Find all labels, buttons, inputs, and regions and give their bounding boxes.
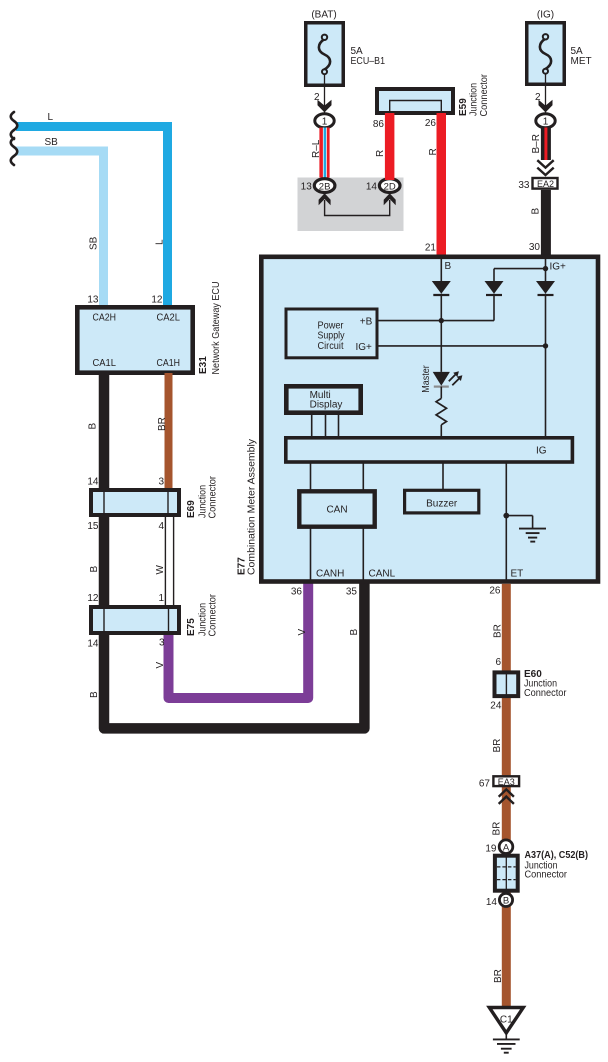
svg-text:SB: SB [45,137,59,148]
svg-text:30: 30 [529,242,541,253]
svg-text:Junction: Junction [469,83,480,116]
svg-text:MET: MET [571,56,592,67]
svg-text:+B: +B [360,316,373,327]
svg-text:86: 86 [373,119,385,130]
svg-text:1: 1 [158,593,164,604]
svg-text:B: B [503,896,509,907]
svg-text:33: 33 [518,180,530,191]
svg-text:V: V [297,629,308,636]
svg-text:V: V [155,662,166,669]
svg-text:ECU–B1: ECU–B1 [351,56,386,67]
svg-text:CANH: CANH [316,568,344,579]
svg-text:6: 6 [495,657,501,668]
svg-text:(IG): (IG) [537,10,554,21]
svg-text:24: 24 [490,701,502,712]
svg-text:14: 14 [87,639,99,650]
svg-text:Connector: Connector [525,870,568,881]
svg-text:Connector: Connector [208,475,219,518]
svg-text:1: 1 [322,116,328,127]
svg-text:B: B [89,691,100,698]
svg-text:Connector: Connector [479,73,490,116]
svg-text:36: 36 [291,587,303,598]
svg-text:B–R: B–R [531,134,542,153]
svg-text:12: 12 [151,295,163,306]
svg-text:2B: 2B [319,181,331,192]
svg-text:EA3: EA3 [498,777,515,787]
svg-text:67: 67 [479,778,491,789]
svg-text:3: 3 [158,477,164,488]
svg-text:13: 13 [87,295,99,306]
svg-text:CANL: CANL [369,568,396,579]
svg-text:Connector: Connector [524,688,567,699]
svg-text:12: 12 [87,593,99,604]
svg-text:IG: IG [536,445,547,456]
svg-text:14: 14 [486,897,498,908]
svg-text:B: B [531,208,542,215]
svg-text:Connector: Connector [208,593,219,636]
svg-text:SB: SB [89,236,100,250]
svg-text:ET: ET [511,568,524,579]
svg-text:Master: Master [421,365,432,393]
svg-text:BR: BR [493,969,504,983]
svg-text:CA1H: CA1H [157,358,181,369]
svg-text:2D: 2D [384,181,396,192]
svg-text:CAN: CAN [326,505,347,516]
svg-text:1: 1 [543,116,549,127]
svg-text:14: 14 [87,477,99,488]
svg-text:CA2H: CA2H [93,312,117,323]
svg-text:L: L [155,239,166,245]
svg-text:B: B [89,566,100,573]
svg-text:E31: E31 [198,356,209,374]
svg-text:21: 21 [425,243,437,254]
svg-text:19: 19 [485,844,497,855]
svg-text:3: 3 [159,638,165,649]
svg-text:(BAT): (BAT) [311,10,336,21]
svg-text:B: B [445,261,452,272]
svg-text:IG+: IG+ [550,261,567,272]
svg-text:CA2L: CA2L [157,312,181,323]
svg-text:4: 4 [158,521,164,532]
svg-text:BR: BR [493,624,504,638]
svg-text:26: 26 [425,118,437,129]
svg-text:IG+: IG+ [356,342,373,353]
svg-text:B: B [88,423,99,430]
svg-text:Combination Meter Assembly: Combination Meter Assembly [247,439,258,575]
svg-text:BR: BR [492,739,503,753]
svg-text:BR: BR [491,822,502,836]
svg-text:Circuit: Circuit [318,341,344,352]
svg-text:EA2: EA2 [537,179,554,189]
svg-text:A37(A), C52(B): A37(A), C52(B) [525,850,589,861]
svg-text:15: 15 [87,521,99,532]
svg-text:Display: Display [310,400,343,411]
svg-text:W: W [155,565,166,575]
svg-text:Supply: Supply [318,330,345,341]
svg-text:E59: E59 [458,98,469,116]
svg-text:Buzzer: Buzzer [426,498,458,509]
svg-text:13: 13 [301,181,313,192]
svg-text:E75: E75 [186,618,197,636]
svg-text:Network Gateway ECU: Network Gateway ECU [211,282,222,375]
svg-text:C1: C1 [500,1014,513,1025]
svg-text:L: L [48,112,54,123]
svg-text:CA1L: CA1L [93,358,117,369]
svg-text:A: A [503,843,510,854]
svg-text:E69: E69 [186,500,197,518]
svg-text:R–L: R–L [311,139,322,158]
svg-text:14: 14 [366,181,378,192]
svg-text:R: R [375,150,386,157]
svg-text:26: 26 [489,586,501,597]
svg-text:35: 35 [346,587,358,598]
svg-text:BR: BR [157,417,168,431]
svg-text:B: B [349,629,360,636]
